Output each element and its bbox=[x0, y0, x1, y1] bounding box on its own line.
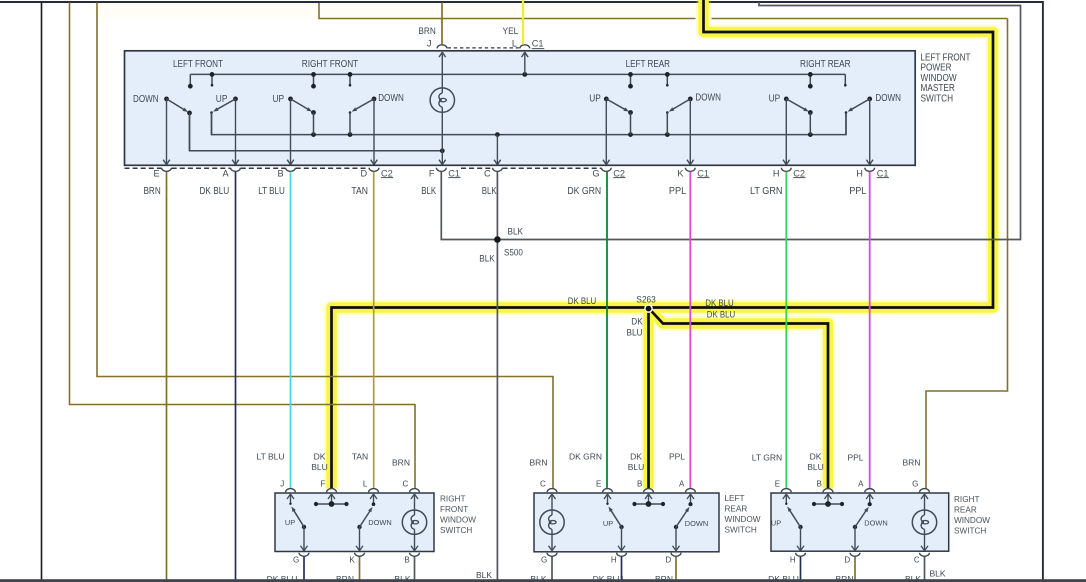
wire BRN rf pin K bbox=[359, 556, 361, 582]
right front switch pin feed lead bbox=[328, 494, 335, 504]
contact stub from bus at x=212 bbox=[211, 74, 214, 86]
label BLK at ground bus bbox=[930, 569, 946, 579]
right front switch pin B label bbox=[404, 556, 409, 565]
label BLK at ground bus bbox=[905, 574, 921, 582]
master LR down switch bbox=[666, 97, 693, 135]
right rear switch lamp lead bbox=[921, 494, 928, 551]
svg-text:WINDOW: WINDOW bbox=[440, 516, 476, 525]
svg-text:L: L bbox=[363, 479, 368, 488]
svg-text:LEFT REAR: LEFT REAR bbox=[626, 59, 670, 70]
junction on master bus2 at x=350 bbox=[348, 132, 353, 137]
right rear switch pin feed lead bbox=[825, 494, 832, 504]
master pin L lead bbox=[522, 52, 529, 74]
right rear switch pin B label bbox=[816, 479, 821, 488]
svg-text:PPL: PPL bbox=[847, 453, 863, 463]
left rear switch contact lead down bbox=[687, 494, 694, 506]
label DK BLU at ground bus bbox=[768, 574, 799, 582]
right rear switch connector terminal G top bbox=[920, 489, 930, 493]
svg-text:G: G bbox=[293, 556, 299, 565]
svg-text:BLU: BLU bbox=[628, 462, 645, 472]
svg-text:RIGHT REAR: RIGHT REAR bbox=[800, 59, 851, 70]
label left front power window master switch bbox=[921, 53, 971, 105]
master RF up switch bbox=[288, 97, 316, 135]
label UP lr bbox=[603, 519, 613, 528]
svg-text:E: E bbox=[596, 479, 601, 488]
connector label C2 bbox=[381, 168, 393, 178]
label BRN wire bottom bbox=[903, 458, 921, 468]
svg-text:LEFT FRONT: LEFT FRONT bbox=[173, 59, 223, 70]
svg-text:UP: UP bbox=[771, 518, 781, 527]
label left front bbox=[173, 59, 223, 70]
pin label L bbox=[512, 39, 517, 49]
wire master bus B+ feed bbox=[190, 73, 845, 75]
splice label S500 bbox=[504, 248, 523, 258]
master pin J-F lamp lead bbox=[439, 52, 446, 164]
label DK vertical bbox=[631, 317, 643, 327]
svg-text:BLU: BLU bbox=[807, 462, 824, 472]
label BRN at ground bus bbox=[655, 574, 673, 582]
svg-text:DK: DK bbox=[631, 317, 643, 327]
connector label C2 bbox=[613, 168, 625, 178]
right front switch switch arm at down bbox=[357, 507, 372, 529]
connector dashed line master bottom bbox=[296, 167, 369, 169]
pin label A bbox=[223, 168, 230, 178]
connector dashed line master top C1 bbox=[448, 47, 520, 49]
pin label J bbox=[427, 39, 432, 49]
svg-text:C1: C1 bbox=[448, 168, 460, 178]
left rear switch pin A label bbox=[679, 479, 685, 488]
right front switch pivot lead down bbox=[356, 527, 363, 551]
svg-text:E: E bbox=[154, 168, 160, 178]
label up position bbox=[589, 94, 601, 105]
svg-text:A: A bbox=[679, 479, 685, 488]
svg-text:TAN: TAN bbox=[352, 452, 368, 462]
label down position bbox=[378, 93, 404, 104]
junction on master bus at x=313.5 bbox=[311, 72, 316, 77]
master RF down switch bbox=[349, 97, 377, 135]
label UP rr bbox=[771, 518, 781, 527]
label LT BLU wire bottom bbox=[256, 452, 284, 462]
svg-text:YEL: YEL bbox=[503, 26, 519, 36]
pin label D bbox=[361, 168, 368, 178]
label DK BLU wire bbox=[200, 186, 230, 197]
svg-text:DOWN: DOWN bbox=[368, 518, 391, 527]
svg-text:DK BLU: DK BLU bbox=[593, 574, 624, 582]
svg-text:BLK: BLK bbox=[530, 574, 546, 582]
connector terminal at x=606.3 bbox=[601, 168, 611, 172]
contact stub from bus at x=810.3 bbox=[808, 74, 813, 88]
pin label C bbox=[484, 168, 491, 178]
right rear switch pivot lead up bbox=[797, 527, 804, 551]
svg-text:BLK: BLK bbox=[482, 186, 497, 197]
label DK BLU at ground bus bbox=[593, 574, 624, 582]
right rear switch pin H label bbox=[790, 556, 796, 565]
right front switch feed bar bbox=[314, 501, 349, 507]
junction on master bus at x=630.5 bbox=[628, 72, 633, 77]
label PPL wire bbox=[669, 186, 687, 197]
svg-text:K: K bbox=[677, 168, 684, 178]
connector label C1 bbox=[697, 168, 709, 178]
label right rear bbox=[800, 59, 851, 70]
right rear switch switch arm at up bbox=[787, 507, 802, 530]
right front switch connector terminal F top bbox=[327, 489, 337, 493]
label BLU vertical bbox=[627, 328, 643, 338]
label PPL wire bottom bbox=[669, 452, 685, 462]
svg-text:DOWN: DOWN bbox=[875, 93, 901, 104]
pin label B bbox=[278, 168, 284, 178]
label up position bbox=[769, 94, 781, 105]
svg-text:C1: C1 bbox=[532, 39, 544, 49]
right rear switch connector terminal A top bbox=[865, 489, 875, 493]
connector dashed line master bottom bbox=[461, 167, 492, 169]
right front switch contact lead down bbox=[370, 494, 377, 506]
connector dashed line master bottom bbox=[172, 167, 231, 169]
svg-text:RIGHT FRONT: RIGHT FRONT bbox=[302, 59, 359, 70]
wire DK BLU highlighted branch to left rear switch bbox=[647, 308, 650, 489]
label up position bbox=[273, 94, 285, 105]
right rear switch pin C label bbox=[914, 556, 920, 565]
svg-text:LEFT: LEFT bbox=[725, 494, 745, 503]
svg-text:UP: UP bbox=[216, 94, 228, 105]
svg-text:H: H bbox=[790, 556, 796, 565]
contact stub from bus at x=845.3 bbox=[844, 74, 847, 86]
pin label G bbox=[592, 168, 599, 178]
highlight DK BLU circuit halo bbox=[332, 0, 994, 489]
svg-text:LT BLU: LT BLU bbox=[258, 186, 285, 197]
svg-text:C2: C2 bbox=[793, 168, 805, 178]
right front switch connector terminal G bottom bbox=[299, 553, 309, 557]
svg-text:BLK: BLK bbox=[476, 570, 492, 580]
right front switch pivot lead up bbox=[301, 527, 308, 551]
connector dashed line master bottom bbox=[241, 167, 286, 169]
right front switch pin L label bbox=[363, 479, 368, 488]
svg-text:SWITCH: SWITCH bbox=[725, 526, 757, 535]
junction on master bus2 at x=810.3 bbox=[808, 132, 813, 137]
svg-text:C: C bbox=[914, 556, 920, 565]
left rear switch connector terminal E top bbox=[603, 489, 613, 493]
right front switch connector terminal B bottom bbox=[410, 553, 420, 557]
lamp U1 illumination bbox=[430, 88, 454, 112]
right front switch connector terminal L top bbox=[369, 489, 379, 493]
left rear switch switch arm at up bbox=[609, 507, 624, 530]
svg-text:LT GRN: LT GRN bbox=[750, 186, 783, 197]
svg-text:DK BLU: DK BLU bbox=[705, 298, 734, 308]
master LR up switch bbox=[604, 97, 633, 135]
label BLU wire bottom bbox=[807, 462, 824, 472]
svg-text:UP: UP bbox=[273, 94, 285, 105]
svg-text:WINDOW: WINDOW bbox=[725, 515, 761, 524]
label right front window switch bbox=[440, 495, 476, 536]
right rear switch switch arm at down bbox=[853, 507, 869, 529]
right rear switch lamp bbox=[912, 510, 936, 534]
right front switch contact lead up bbox=[287, 494, 294, 505]
svg-text:DK BLU: DK BLU bbox=[267, 574, 298, 582]
left rear switch pin feed lead bbox=[645, 494, 652, 504]
contact stub from bus at x=350 bbox=[349, 74, 352, 86]
svg-text:C1: C1 bbox=[697, 168, 709, 178]
svg-text:B: B bbox=[404, 556, 409, 565]
junction on master bus at x=667.3 bbox=[665, 72, 670, 77]
right front switch pin J label bbox=[280, 479, 284, 488]
right front switch connector terminal C top bbox=[410, 489, 420, 493]
right rear switch pin G label bbox=[912, 479, 918, 488]
svg-text:BLK: BLK bbox=[421, 186, 436, 197]
label DK GRN wire bottom bbox=[569, 452, 602, 462]
junction on master bus at x=212 bbox=[210, 72, 215, 77]
wire BLK rf pin B bbox=[414, 556, 416, 580]
label BLU wire bottom bbox=[628, 462, 645, 472]
master RR down switch bbox=[845, 97, 872, 135]
svg-text:BLK: BLK bbox=[479, 254, 495, 264]
svg-text:F: F bbox=[320, 479, 325, 488]
label left rear bbox=[626, 59, 670, 70]
left rear switch connector terminal D bottom bbox=[671, 553, 681, 557]
svg-text:C: C bbox=[540, 479, 546, 488]
left rear switch lamp lead bbox=[549, 494, 556, 551]
left rear switch pin G label bbox=[541, 556, 547, 565]
wire DK BLU highlighted main run bbox=[332, 0, 994, 489]
junction on master bus2 at x=667.3 bbox=[665, 132, 670, 137]
connector terminal at x=869.7 bbox=[865, 168, 875, 172]
svg-text:BLK: BLK bbox=[508, 227, 524, 237]
svg-text:RIGHT: RIGHT bbox=[440, 495, 465, 504]
label TAN wire bottom bbox=[352, 452, 368, 462]
right rear switch contact lead up bbox=[783, 494, 790, 505]
right rear switch connector terminal E top bbox=[781, 489, 791, 493]
svg-text:DK GRN: DK GRN bbox=[567, 186, 601, 197]
label BLK at ground bus bbox=[530, 574, 546, 582]
label right front bbox=[302, 59, 359, 70]
right front switch pin C label bbox=[403, 479, 409, 488]
left rear switch pivot lead up bbox=[618, 527, 625, 551]
label BRN wire bbox=[144, 186, 161, 197]
svg-text:BRN: BRN bbox=[655, 574, 673, 582]
left rear switch pivot lead down bbox=[673, 527, 680, 551]
label BLK wire bbox=[482, 186, 497, 197]
contact stub from bus at x=630.5 bbox=[628, 74, 633, 88]
label YEL top bbox=[503, 26, 519, 36]
label DK BLU branch 2 bbox=[707, 309, 736, 319]
svg-text:D: D bbox=[361, 168, 368, 178]
left rear switch connector terminal C top bbox=[547, 489, 557, 493]
junction on master bus at x=350 bbox=[348, 72, 353, 77]
svg-text:BRN: BRN bbox=[392, 458, 410, 468]
connector label C1 bbox=[877, 168, 889, 178]
right rear switch feed bar bbox=[812, 501, 844, 507]
wire BRN to left rear switch pin C bbox=[97, 3, 553, 489]
right front switch connector terminal K bottom bbox=[355, 553, 365, 557]
svg-text:UP: UP bbox=[769, 94, 781, 105]
connector terminal at x=497.4 bbox=[493, 168, 503, 172]
right rear switch pin A label bbox=[858, 479, 864, 488]
svg-text:REAR: REAR bbox=[725, 505, 748, 514]
svg-text:B: B bbox=[637, 479, 642, 488]
wire DK BLU rf pin G bbox=[303, 556, 305, 582]
left rear switch connector terminal G bottom bbox=[547, 553, 557, 557]
svg-text:WINDOW: WINDOW bbox=[954, 516, 990, 525]
wire PPL from master pin K bbox=[689, 172, 691, 489]
svg-text:G: G bbox=[541, 556, 547, 565]
svg-text:DOWN: DOWN bbox=[378, 93, 404, 104]
right front switch pin F label bbox=[320, 479, 325, 488]
master pin E lead bbox=[163, 99, 170, 165]
left rear switch feed bar bbox=[632, 501, 665, 507]
svg-text:UP: UP bbox=[603, 519, 613, 528]
wire BLK ground via S500 bbox=[441, 2, 1020, 240]
svg-text:D: D bbox=[844, 556, 850, 565]
connector terminal at x=441.3 bbox=[436, 168, 446, 172]
svg-text:UP: UP bbox=[589, 94, 601, 105]
label DK GRN wire bbox=[567, 186, 601, 197]
svg-text:DOWN: DOWN bbox=[685, 519, 708, 528]
svg-text:DK: DK bbox=[810, 452, 822, 462]
wire BRN rr pin D bbox=[854, 556, 856, 582]
svg-text:DK BLU: DK BLU bbox=[768, 574, 799, 582]
label LT GRN wire bottom bbox=[752, 453, 782, 463]
svg-text:C2: C2 bbox=[613, 168, 625, 178]
svg-text:B: B bbox=[816, 479, 821, 488]
svg-text:DK: DK bbox=[314, 452, 326, 462]
splice S263 bbox=[645, 305, 652, 312]
wire BLK from pin C to ground bus bbox=[496, 172, 498, 580]
label BLU wire bottom bbox=[311, 462, 328, 472]
svg-text:C: C bbox=[484, 168, 491, 178]
right rear switch contact lead down bbox=[866, 494, 873, 506]
left rear switch contact lead up bbox=[604, 494, 611, 505]
pin label E bbox=[154, 168, 160, 178]
right rear switch connector terminal D bottom bbox=[850, 553, 860, 557]
master RR up switch bbox=[784, 97, 813, 135]
label DOWN lr bbox=[685, 519, 708, 528]
connector terminal at x=166.5 bbox=[162, 168, 172, 172]
contact stub from bus at x=190.3 bbox=[188, 74, 193, 88]
svg-text:D: D bbox=[665, 556, 671, 565]
left rear switch connector terminal B top bbox=[644, 489, 654, 493]
svg-text:BLU: BLU bbox=[627, 328, 643, 338]
right rear switch connector terminal B top bbox=[823, 489, 833, 493]
master pin G lead bbox=[603, 99, 610, 165]
connector label C2 bbox=[793, 168, 805, 178]
master pin H_C2 lead bbox=[783, 99, 790, 165]
master LF down switch bbox=[164, 97, 192, 151]
left rear switch switch arm at down bbox=[674, 507, 690, 529]
left rear switch connector terminal A top bbox=[686, 489, 696, 493]
right rear switch pin E label bbox=[775, 479, 780, 488]
label down position bbox=[695, 93, 721, 104]
wire PPL from master pin H C1 bbox=[869, 172, 871, 489]
wire DK BLU lr pin H bbox=[621, 556, 623, 582]
right front switch switch arm at up bbox=[291, 507, 306, 530]
wire DK BLU highlighted branch to right rear switch bbox=[649, 308, 829, 489]
label DK wire bottom bbox=[314, 452, 326, 462]
label PPL wire bottom bbox=[847, 453, 863, 463]
label DK BLU left of S263 bbox=[568, 296, 597, 306]
label DK BLU right of S263 bbox=[705, 298, 734, 308]
junction on master bus at x=810.3 bbox=[808, 72, 813, 77]
label DOWN rf bbox=[368, 518, 391, 527]
left rear switch connector terminal H bottom bbox=[617, 553, 627, 557]
svg-text:BRN: BRN bbox=[336, 574, 354, 582]
connector terminal at x=290.5 bbox=[286, 168, 296, 172]
svg-text:BRN: BRN bbox=[903, 458, 921, 468]
label TAN wire bbox=[351, 186, 368, 197]
wire BRN feed right segment bbox=[926, 19, 1008, 489]
wire master internal bus 3 bbox=[190, 113, 445, 153]
right rear switch connector terminal C bottom bbox=[920, 553, 930, 557]
label LT BLU wire bbox=[258, 186, 285, 197]
connector dashed line master bottom bbox=[503, 167, 601, 169]
svg-text:E: E bbox=[775, 479, 780, 488]
svg-text:G: G bbox=[912, 479, 918, 488]
svg-text:TAN: TAN bbox=[351, 186, 368, 197]
svg-text:A: A bbox=[858, 479, 864, 488]
wire BRN from master pin E bbox=[166, 172, 168, 582]
svg-text:DK GRN: DK GRN bbox=[569, 452, 602, 462]
svg-text:BLU: BLU bbox=[311, 462, 328, 472]
svg-text:DK BLU: DK BLU bbox=[707, 309, 736, 319]
left rear switch pin H label bbox=[611, 556, 617, 565]
contact stub from bus at x=313.5 bbox=[311, 74, 316, 88]
right rear switch connector terminal H bottom bbox=[796, 553, 806, 557]
svg-text:FRONT: FRONT bbox=[440, 505, 468, 514]
switch box right rear window switch bbox=[771, 493, 949, 551]
label right rear window switch bbox=[954, 495, 990, 536]
svg-text:H: H bbox=[856, 168, 863, 178]
label up position bbox=[216, 94, 228, 105]
svg-text:LT GRN: LT GRN bbox=[752, 453, 782, 463]
label UP rf bbox=[285, 518, 295, 527]
label LT GRN wire bbox=[750, 186, 783, 197]
svg-text:G: G bbox=[592, 168, 599, 178]
wire BLK ground bus bottom bbox=[0, 579, 1086, 582]
svg-text:L: L bbox=[512, 39, 517, 49]
svg-text:C: C bbox=[403, 479, 409, 488]
label BLK at ground bus bbox=[476, 570, 492, 580]
wire BRN lr pin D bbox=[675, 556, 677, 582]
svg-text:C1: C1 bbox=[877, 168, 889, 178]
svg-text:SWITCH: SWITCH bbox=[921, 93, 954, 104]
master LF up switch bbox=[210, 97, 238, 135]
connector label C1 top bbox=[532, 39, 545, 49]
right front switch pin G label bbox=[293, 556, 299, 565]
wire master internal bus 2 bbox=[212, 113, 847, 135]
label BRN top bbox=[418, 26, 435, 36]
svg-text:BLK: BLK bbox=[394, 574, 410, 582]
connector label C1 bbox=[448, 168, 460, 178]
svg-text:BRN: BRN bbox=[836, 574, 854, 582]
svg-text:PPL: PPL bbox=[849, 186, 867, 197]
splice label S263 bbox=[636, 295, 656, 305]
connector terminal at x=690.3 bbox=[685, 168, 695, 172]
label BRN at ground bus bbox=[836, 574, 854, 582]
svg-text:J: J bbox=[427, 39, 432, 49]
master pin K lead bbox=[687, 99, 694, 165]
svg-text:DK BLU: DK BLU bbox=[568, 296, 597, 306]
pin label H bbox=[773, 168, 780, 178]
svg-text:C2: C2 bbox=[381, 168, 393, 178]
label DK wire bottom bbox=[630, 452, 642, 462]
switch box left rear window switch bbox=[534, 493, 719, 552]
master pin H_C1 lead bbox=[866, 99, 873, 165]
wire BLK long left bbox=[41, 3, 43, 582]
master pin D lead bbox=[371, 99, 378, 165]
left rear switch lamp bbox=[540, 510, 564, 534]
label BRN wire bottom bbox=[530, 458, 548, 468]
svg-text:PPL: PPL bbox=[669, 186, 687, 197]
pin label K bbox=[677, 168, 684, 178]
left rear switch pin D label bbox=[665, 556, 671, 565]
connector terminal L bbox=[520, 45, 530, 49]
